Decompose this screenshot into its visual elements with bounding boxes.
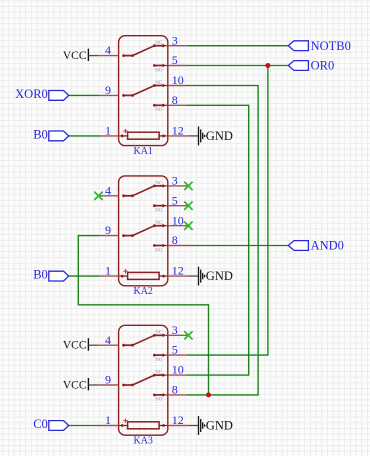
svg-text:9: 9 xyxy=(105,83,111,97)
power port GND (KA1 pin 12) xyxy=(188,127,233,146)
KA1 pin 5 xyxy=(168,53,188,67)
svg-text:VCC: VCC xyxy=(63,340,87,352)
wire KA2 pin 9 to KA3 pin 8 net (around bottom of KA2) xyxy=(78,236,208,395)
svg-text:KA3: KA3 xyxy=(133,436,152,447)
svg-text:NOTB0: NOTB0 xyxy=(311,39,351,53)
svg-text:NO: NO xyxy=(155,247,163,253)
svg-text:4: 4 xyxy=(105,333,111,347)
KA3 pin 4 xyxy=(99,333,119,347)
svg-text:NC: NC xyxy=(155,220,163,226)
wire OR0 net junction down to KA3 pin 5 xyxy=(188,66,268,356)
power port GND (KA2 pin 12) xyxy=(188,267,233,286)
svg-text:3: 3 xyxy=(172,323,178,337)
port B0 (to KA2) xyxy=(33,268,68,282)
wire port XOR0 to KA1 pin 9 xyxy=(69,94,99,96)
svg-text:12: 12 xyxy=(172,124,184,138)
svg-text:12: 12 xyxy=(172,413,184,427)
svg-text:10: 10 xyxy=(172,363,184,377)
svg-text:NO: NO xyxy=(155,357,163,363)
svg-text:8: 8 xyxy=(172,233,178,247)
KA1 pin 4 xyxy=(99,43,119,57)
KA3 coil polarity + xyxy=(123,418,127,422)
port C0 xyxy=(33,417,68,431)
svg-text:8: 8 xyxy=(172,93,178,107)
KA3 pin 1 xyxy=(99,413,119,427)
KA1 coil (pins 1/12) xyxy=(119,132,168,139)
wire port B0 to KA2 pin 1 xyxy=(69,275,99,277)
power port GND (KA3 pin 12) xyxy=(188,416,233,435)
KA1 pin 9 xyxy=(99,83,119,97)
svg-text:B0: B0 xyxy=(33,268,48,282)
no-connect X on KA3 pin 3 xyxy=(184,331,192,339)
svg-text:4: 4 xyxy=(105,183,111,197)
svg-text:NO: NO xyxy=(155,397,163,403)
wire port B0 to KA1 pin 1 xyxy=(69,135,99,137)
svg-text:KA2: KA2 xyxy=(133,286,152,297)
KA1 contact B (pins 9/10/8) xyxy=(122,80,168,113)
svg-text:NO: NO xyxy=(155,67,163,73)
svg-text:NO: NO xyxy=(155,107,163,113)
relay KA2 xyxy=(119,176,168,286)
svg-text:5: 5 xyxy=(172,53,178,67)
no-connect X on KA2 pin 10 xyxy=(184,222,192,230)
KA1 contact A (pins 4/3/5) xyxy=(122,40,168,73)
no-connect X on KA2 pin 4 xyxy=(94,192,102,200)
svg-text:VCC: VCC xyxy=(63,379,87,391)
svg-text:12: 12 xyxy=(172,264,184,278)
svg-text:VCC: VCC xyxy=(63,50,87,62)
KA1 pin 12 xyxy=(168,124,188,138)
KA3 pin 5 xyxy=(168,343,188,357)
svg-text:8: 8 xyxy=(172,383,178,397)
KA1 pin 3 xyxy=(168,33,188,47)
KA3 contact B (pins 9/10/8) xyxy=(122,370,168,403)
power port VCC (KA1 pin 4) xyxy=(63,49,99,62)
svg-text:5: 5 xyxy=(172,343,178,357)
svg-text:B0: B0 xyxy=(33,128,48,142)
no-connect X on KA2 pin 3 xyxy=(184,182,192,190)
KA3 pin 12 xyxy=(168,413,188,427)
KA1 pin 8 xyxy=(168,93,188,107)
svg-text:KA1: KA1 xyxy=(133,146,152,157)
svg-text:GND: GND xyxy=(206,419,233,433)
KA3 coil (pins 1/12) xyxy=(119,422,168,429)
junction on KA3 pin 8 net xyxy=(206,392,211,397)
KA2 pin 8 xyxy=(168,233,188,247)
KA2 pin 9 xyxy=(99,223,119,237)
KA2 pin 12 xyxy=(168,264,188,278)
svg-text:C0: C0 xyxy=(33,417,48,431)
svg-text:10: 10 xyxy=(172,73,184,87)
KA2 coil polarity + xyxy=(123,269,127,273)
KA3 pin 10 xyxy=(168,363,188,377)
svg-text:3: 3 xyxy=(172,174,178,188)
svg-text:OR0: OR0 xyxy=(311,59,335,73)
svg-text:NC: NC xyxy=(155,180,163,186)
port B0 (to KA1) xyxy=(33,128,68,142)
port NOTB0 xyxy=(288,39,351,53)
svg-text:AND0: AND0 xyxy=(311,239,344,253)
svg-text:NO: NO xyxy=(155,208,163,214)
svg-text:9: 9 xyxy=(105,223,111,237)
KA1 pin 1 xyxy=(99,124,119,138)
svg-text:10: 10 xyxy=(172,213,184,227)
port XOR0 xyxy=(15,87,69,101)
svg-text:GND: GND xyxy=(206,269,233,283)
svg-text:3: 3 xyxy=(172,33,178,47)
wire KA1 pin 5 to port OR0 xyxy=(188,65,289,67)
svg-text:4: 4 xyxy=(105,43,111,57)
KA2 contact B (pins 9/10/8) xyxy=(122,220,168,253)
KA3 contact A (pins 4/3/5) xyxy=(122,330,168,363)
KA2 coil (pins 1/12) xyxy=(119,272,168,279)
svg-text:NC: NC xyxy=(155,370,163,376)
wire KA1 pin 10 to KA3 pin 8 xyxy=(188,86,259,395)
designator KA3 xyxy=(133,436,152,447)
KA1 pin 10 xyxy=(168,73,188,87)
KA1 coil polarity + xyxy=(123,129,127,133)
KA2 pin 10 xyxy=(168,213,188,227)
svg-text:XOR0: XOR0 xyxy=(15,87,48,101)
no-connect X on KA2 pin 5 xyxy=(184,202,192,210)
KA2 pin 1 xyxy=(99,264,119,278)
KA3 pin 8 xyxy=(168,383,188,397)
svg-text:NC: NC xyxy=(155,330,163,336)
KA2 pin 4 xyxy=(99,183,119,197)
relay KA1 xyxy=(119,36,168,146)
wire port C0 to KA3 pin 1 xyxy=(69,425,99,427)
svg-text:1: 1 xyxy=(105,124,111,138)
wire KA2 pin 8 to port AND0 xyxy=(188,245,289,247)
KA3 pin 3 xyxy=(168,323,188,337)
svg-text:1: 1 xyxy=(105,264,111,278)
KA3 pin 9 xyxy=(99,373,119,387)
wire KA1 pin 8 to KA3 pin 10 xyxy=(188,105,249,375)
KA2 pin 3 xyxy=(168,174,188,188)
relay KA3 xyxy=(119,325,168,435)
power port VCC (KA3 pin 4) xyxy=(63,338,99,351)
wire KA1 pin 3 to port NOTB0 xyxy=(188,45,289,47)
svg-text:5: 5 xyxy=(172,193,178,207)
svg-text:NC: NC xyxy=(155,80,163,86)
svg-text:NC: NC xyxy=(155,40,163,46)
power port VCC (KA3 pin 9) xyxy=(63,378,99,391)
junction on OR0 net xyxy=(265,63,270,68)
svg-text:1: 1 xyxy=(105,413,111,427)
svg-text:9: 9 xyxy=(105,373,111,387)
KA2 contact A (pins 4/3/5) xyxy=(122,180,168,213)
port AND0 xyxy=(288,239,344,253)
KA2 pin 5 xyxy=(168,193,188,207)
svg-text:GND: GND xyxy=(206,129,233,143)
port OR0 xyxy=(288,59,334,73)
designator KA1 xyxy=(133,146,152,157)
designator KA2 xyxy=(133,286,152,297)
